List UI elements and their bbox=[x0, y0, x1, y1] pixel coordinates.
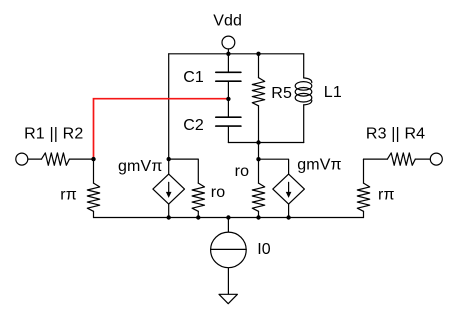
arrow inside right diamond bbox=[286, 182, 292, 198]
resistor rpi left bbox=[87, 183, 99, 211]
input terminal left circle bbox=[16, 153, 28, 165]
svg-text:Vdd: Vdd bbox=[213, 13, 242, 30]
wire left diamond bottom to bottom rail bbox=[168, 204, 170, 217]
wire Vdd terminal to rail bbox=[227, 49, 229, 54]
node bottom rail right diamond bbox=[286, 215, 290, 219]
wire left branch from top rail down to left gm node bbox=[168, 54, 170, 174]
wire I0 to ground bbox=[227, 268, 229, 295]
wire L1 bottom lead bbox=[303, 105, 305, 143]
wire (selected, red) from left input node to C1-C2 midpoint node A bbox=[94, 99, 229, 159]
svg-text:R3 || R4: R3 || R4 bbox=[366, 126, 425, 143]
node bottom rail left diamond bbox=[167, 215, 171, 219]
node bottom rail right ro bbox=[256, 215, 260, 219]
resistor R3 || R4 bbox=[387, 153, 415, 165]
svg-text:L1: L1 bbox=[324, 84, 342, 101]
wire right node to rpi corner bbox=[364, 158, 388, 160]
capacitor C2 bbox=[216, 117, 241, 126]
node R5 junction on top rail bbox=[256, 52, 260, 56]
wire R3R4 to right terminal bbox=[415, 158, 430, 160]
current source I0 circle bbox=[211, 232, 247, 268]
wire left input node to rpi bbox=[93, 159, 95, 183]
wire right rpi top lead bbox=[363, 159, 365, 183]
wire left ro bottom lead bbox=[197, 211, 199, 217]
svg-text:R1 || R2: R1 || R2 bbox=[24, 126, 83, 143]
node Vdd-C1 junction on top rail bbox=[226, 52, 230, 56]
svg-text:rπ: rπ bbox=[60, 187, 77, 204]
wire right gm node to right diamond bbox=[259, 159, 289, 174]
wire L1 top lead bbox=[303, 54, 305, 78]
node bottom rail left ro bbox=[196, 215, 200, 219]
wire left gm node to left ro bbox=[169, 159, 199, 183]
ground symbol bbox=[219, 294, 237, 303]
arrow inside left diamond bbox=[166, 182, 172, 198]
current source I0 bar bbox=[211, 248, 247, 250]
capacitor C1 bbox=[216, 72, 241, 81]
svg-text:I0: I0 bbox=[257, 241, 271, 258]
node A (C1-C2 midpoint) bbox=[226, 97, 230, 101]
resistor ro right bbox=[252, 183, 264, 211]
wire bottom rail to I0 bbox=[227, 218, 229, 233]
wire right ro top lead bbox=[258, 159, 260, 183]
svg-text:rπ: rπ bbox=[378, 187, 395, 204]
supply terminal Vdd circle bbox=[222, 36, 235, 49]
wire C1 bottom plate to node A bbox=[227, 81, 229, 117]
wire R5 bottom lead bbox=[258, 106, 260, 143]
node bottom rail I0 bbox=[226, 215, 230, 219]
wire R5 top lead bbox=[258, 54, 260, 78]
resistor ro left bbox=[192, 183, 204, 211]
wire left rpi bottom lead bbox=[93, 211, 95, 217]
input terminal right circle bbox=[430, 153, 442, 165]
node left gm branch bbox=[167, 157, 171, 161]
wire C2 bottom plate down to tank bottom rail bbox=[227, 126, 229, 142]
svg-text:R5: R5 bbox=[271, 85, 292, 102]
svg-text:gmVπ: gmVπ bbox=[118, 158, 163, 175]
wire right rpi bottom lead bbox=[363, 211, 365, 217]
wire top rail Vdd net bbox=[169, 53, 304, 55]
wire tank rail down to right gm node bbox=[258, 143, 260, 160]
node left input (R1R2-rpi-red wire) bbox=[91, 157, 95, 161]
wire tank bottom rail bbox=[228, 142, 303, 144]
wire R1R2 to left node bbox=[69, 158, 93, 160]
inductor L1 bbox=[295, 78, 312, 105]
svg-text:C2: C2 bbox=[183, 117, 204, 134]
resistor rpi right bbox=[357, 183, 369, 211]
svg-text:ro: ro bbox=[235, 163, 250, 180]
svg-text:ro: ro bbox=[211, 184, 226, 201]
node right gm branch bbox=[256, 157, 260, 161]
resistor R1 || R2 bbox=[42, 153, 70, 165]
wire right ro bottom lead bbox=[258, 211, 260, 217]
vccs gmVpi left (diamond) bbox=[153, 174, 185, 204]
svg-text:C1: C1 bbox=[183, 69, 204, 86]
wire rail to C1 top plate bbox=[227, 54, 229, 73]
wire right diamond bottom to bottom rail bbox=[288, 204, 290, 217]
wire bottom emitter rail bbox=[94, 217, 364, 219]
vccs gmVpi right (diamond) bbox=[273, 174, 305, 204]
resistor R5 bbox=[252, 78, 264, 106]
wire left terminal to R1R2 bbox=[28, 158, 42, 160]
node R5 junction on tank bottom rail bbox=[256, 140, 260, 144]
svg-text:gmVπ: gmVπ bbox=[297, 157, 342, 174]
